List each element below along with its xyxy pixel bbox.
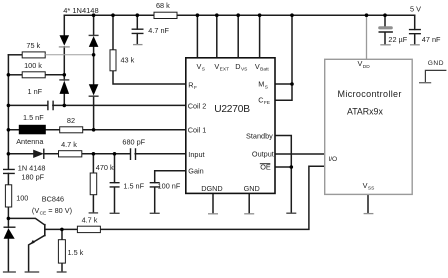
wire 47nF leads [414, 15, 416, 44]
capacitor 4.7nF [132, 29, 144, 33]
diode D1 [59, 35, 70, 47]
wire right diode column [93, 15, 95, 130]
capacitor 1.5nF lower [110, 183, 120, 187]
svg-text:Standby: Standby [246, 131, 273, 140]
resistor 100 [5, 185, 28, 207]
capacitor 680pF [131, 148, 136, 160]
wire 1.5nF cap leads [114, 154, 116, 213]
ground VSS [364, 213, 374, 215]
diode D4 [89, 84, 99, 96]
capacitor 100nF [150, 183, 160, 187]
wire 75k to diodes (gray) [45, 54, 93, 56]
svg-text:1N 4148: 1N 4148 [18, 164, 46, 173]
node left rail dots [7, 73, 11, 77]
svg-text:4.7 nF: 4.7 nF [148, 26, 169, 35]
wire gain row and 100nF leads [155, 171, 186, 213]
wire 75k row left [8, 54, 22, 56]
diode D3 [89, 35, 99, 47]
ground left diode [3, 271, 16, 273]
wire 5V top rail [64, 14, 414, 16]
wire coil1 row [8, 129, 185, 131]
svg-text:DGND: DGND [201, 184, 223, 193]
node OE dot [290, 165, 294, 169]
wire MS CFE bus [275, 15, 292, 100]
wire VSS lead [367, 194, 369, 213]
resistor 100k [22, 61, 45, 78]
svg-text:4.7 k: 4.7 k [82, 215, 98, 224]
resistor 4.7k antenna [59, 140, 82, 157]
IC U2270B box [186, 58, 275, 194]
svg-text:1.5 nF: 1.5 nF [23, 113, 44, 122]
microcontroller box [325, 59, 413, 194]
wire 1.5k leads [61, 229, 63, 271]
wire VDD lead (gray) [366, 15, 368, 59]
ground 1.5nF [110, 212, 120, 214]
svg-text:82: 82 [67, 116, 75, 125]
resistor 68k [154, 1, 177, 18]
svg-text:Gain: Gain [188, 167, 203, 176]
svg-text:1.5 k: 1.5 k [68, 248, 84, 257]
node MS dot [290, 82, 294, 86]
svg-text:Output: Output [252, 149, 274, 158]
ground 22uF [380, 44, 390, 46]
svg-text:ATARx9x: ATARx9x [347, 107, 383, 117]
ground emitter [25, 271, 40, 273]
wire left rail mid (below 180pF) [7, 174, 9, 185]
wire left diode column [63, 15, 65, 105]
wire antenna row [8, 153, 185, 155]
ground 1.5k [57, 271, 67, 273]
wire I/O to base resistor [100, 166, 324, 229]
ground 47nF [410, 44, 420, 46]
resistor 1.5k [58, 240, 83, 263]
resistor 470k [90, 163, 114, 195]
svg-text:U2270B: U2270B [214, 104, 250, 115]
wire 4.7nF leads [136, 15, 138, 44]
capacitor 47nF [409, 30, 421, 34]
svg-text:22 µF: 22 µF [388, 35, 407, 44]
resistor 43k [110, 50, 135, 71]
ground 470k [89, 212, 99, 214]
wire left rail upper [7, 55, 9, 169]
svg-text:75 k: 75 k [26, 41, 40, 50]
diode D5 1N4148 antenna [33, 149, 44, 159]
svg-text:470 k: 470 k [96, 163, 114, 172]
node diode column dots [63, 73, 67, 77]
node input row dots [92, 152, 96, 156]
resistor 82 [60, 116, 83, 133]
svg-text:5 V: 5 V [410, 5, 421, 14]
svg-text:Input: Input [188, 150, 204, 159]
wire 1nF row [8, 104, 185, 106]
resistor 75k [22, 41, 45, 58]
wire 43k leads [113, 15, 186, 84]
ground DGND [208, 213, 218, 215]
capacitor 1nF [48, 101, 53, 111]
svg-text:Coil 2: Coil 2 [188, 102, 207, 111]
svg-text:68 k: 68 k [156, 1, 170, 10]
wire 100k row left [8, 74, 22, 76]
svg-text:47 nF: 47 nF [422, 35, 441, 44]
wire 100k row right [45, 74, 64, 76]
wire output to I/O [275, 153, 325, 155]
ground 4.7nF [133, 44, 143, 46]
capacitor 180pF [3, 169, 15, 173]
svg-text:BC846: BC846 [42, 195, 64, 204]
ground GND pin [244, 213, 254, 215]
wire GND stub [425, 70, 446, 82]
svg-text:680 pF: 680 pF [122, 137, 145, 146]
wire left rail lower (below 100 resistor) [7, 207, 9, 227]
wire IC top pins [197, 15, 259, 58]
svg-text:180 pF: 180 pF [21, 172, 44, 181]
wire standby OE bus [275, 136, 291, 213]
svg-text:1 nF: 1 nF [28, 87, 43, 96]
transistor Q1 BC846 [30, 195, 72, 245]
wire DGND lead [212, 193, 214, 213]
capacitor 22uF [378, 26, 408, 44]
svg-text:100: 100 [16, 194, 28, 203]
svg-text:GND: GND [244, 184, 260, 193]
diode D6 bottom left [4, 227, 16, 239]
svg-text:100 k: 100 k [24, 61, 42, 70]
svg-text:43 k: 43 k [121, 56, 135, 65]
svg-text:Antenna: Antenna [16, 137, 44, 146]
ground 100nF [150, 212, 160, 214]
svg-text:4.7 k: 4.7 k [61, 140, 77, 149]
svg-text:1.5 nF: 1.5 nF [123, 182, 144, 191]
svg-text:GND: GND [428, 60, 444, 67]
svg-text:100 nF: 100 nF [158, 182, 181, 191]
ground GND stub [419, 82, 431, 84]
ground standby bus [286, 212, 296, 214]
wire left rail bottom (below diode) [7, 239, 9, 272]
wire 22uF leads [384, 15, 386, 44]
wire GND lead [248, 193, 250, 213]
resistor 4.7k base [77, 215, 100, 232]
diode D2 [59, 80, 69, 94]
wire emitter [29, 235, 45, 271]
wire base node [45, 228, 78, 230]
node top rail dots [92, 13, 96, 17]
svg-text:I/O: I/O [328, 156, 337, 163]
node base dot [60, 228, 64, 232]
svg-text:Coil 1: Coil 1 [188, 125, 207, 134]
svg-text:Microcontroller: Microcontroller [338, 89, 402, 99]
wire 470k leads [92, 154, 94, 213]
antenna coil 1.5nF black block [19, 113, 46, 134]
wire collector [8, 218, 44, 225]
